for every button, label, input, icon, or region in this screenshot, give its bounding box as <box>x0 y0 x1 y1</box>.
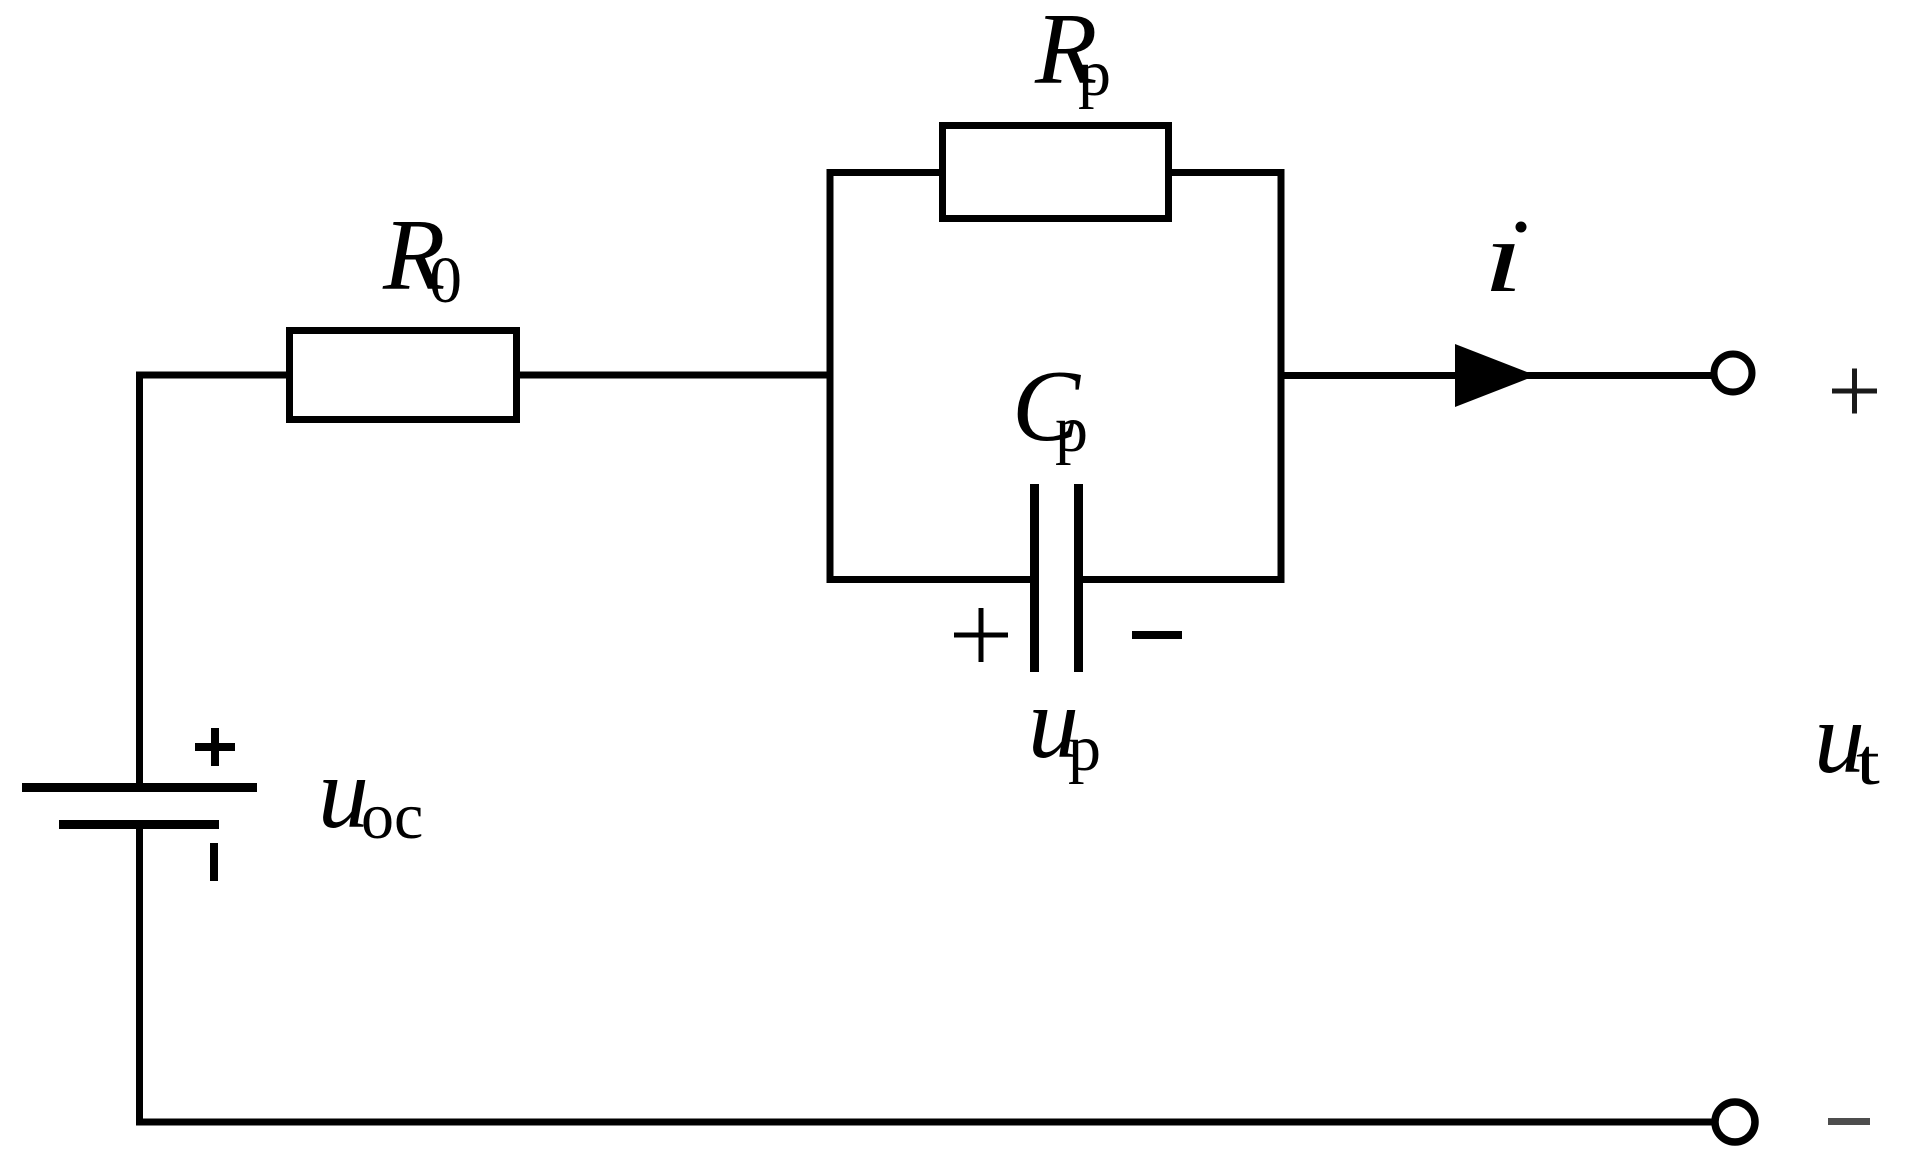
wire: block bottom, right segment <box>1079 576 1285 583</box>
resistor Rp <box>943 126 1169 219</box>
svg-text:oc: oc <box>361 780 423 853</box>
wire: bottom horizontal <box>136 1119 1716 1126</box>
wire: block top, left segment <box>827 169 945 176</box>
svg-text:p: p <box>1078 37 1111 110</box>
resistor R0 <box>290 331 517 420</box>
capacitor minus sign <box>1132 631 1182 639</box>
capacitor plus sign <box>954 608 1008 662</box>
wire: R0 to parallel block <box>516 372 834 379</box>
wire: top-left horizontal (corner to R0) <box>136 372 290 379</box>
wire: parallel block right vertical <box>1278 169 1285 583</box>
terminal circle top (+) <box>1714 354 1752 392</box>
svg-text:0: 0 <box>429 244 462 317</box>
wire: block bottom, left segment <box>827 576 1032 583</box>
label i <box>1483 201 1524 313</box>
current arrow i <box>1455 344 1536 407</box>
terminal circle bottom (-) <box>1715 1102 1755 1142</box>
svg-text:p: p <box>1068 712 1101 785</box>
svg-text:p: p <box>1055 393 1088 466</box>
battery Uoc long plate (+) <box>22 783 257 792</box>
battery Uoc short plate (-) <box>59 820 219 829</box>
wire: block top, right segment <box>1167 169 1285 176</box>
capacitor Cp right plate <box>1074 484 1083 672</box>
wire: output to + terminal <box>1278 372 1715 379</box>
svg-text:t: t <box>1856 725 1880 798</box>
battery plus marker <box>195 728 235 766</box>
capacitor Cp left plate <box>1030 484 1039 672</box>
plus sign at + terminal <box>1832 369 1877 414</box>
wire: parallel block left vertical <box>827 169 834 583</box>
svg-text:ı: ı <box>1483 201 1524 313</box>
battery minus marker <box>210 843 218 881</box>
minus sign at - terminal <box>1828 1118 1870 1125</box>
wire: left vertical upper (battery + to top-left corner) <box>136 372 143 791</box>
wire: left vertical lower (battery - to bottom wire) <box>136 825 143 1126</box>
